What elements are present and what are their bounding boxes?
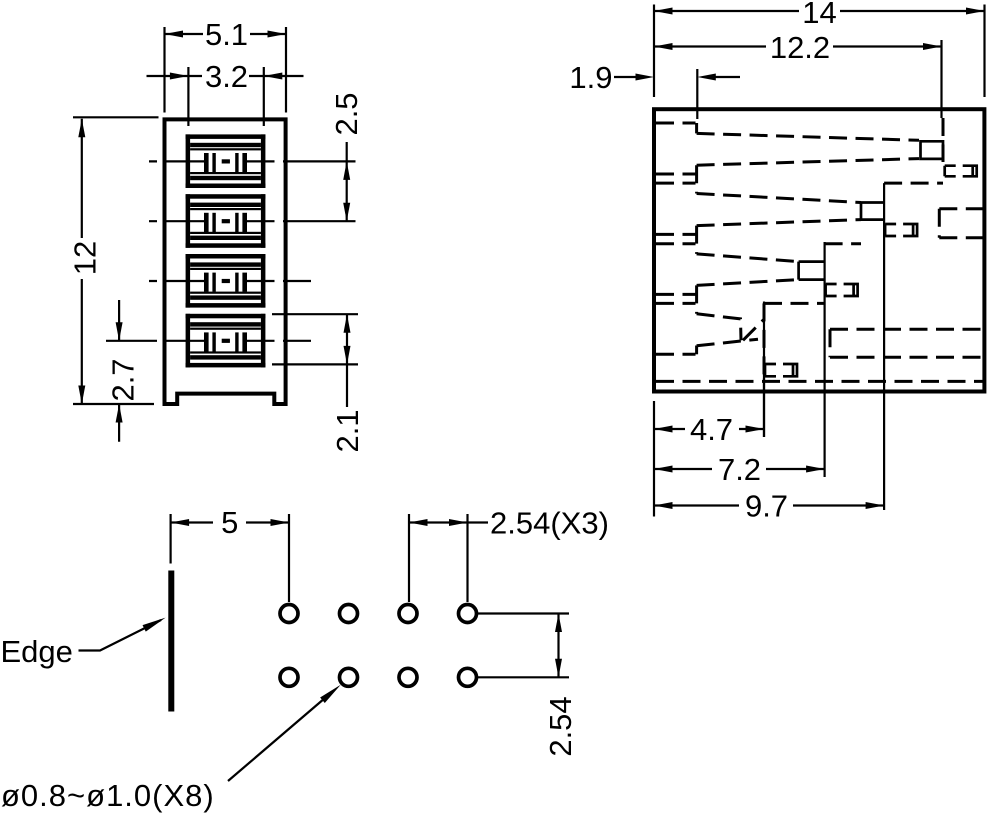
svg-text:Edge: Edge — [1, 634, 73, 669]
svg-text:12.2: 12.2 — [770, 30, 830, 65]
svg-text:14: 14 — [802, 0, 836, 30]
svg-text:5: 5 — [221, 505, 238, 540]
svg-text:4.7: 4.7 — [690, 412, 733, 447]
svg-text:2.7: 2.7 — [106, 358, 141, 401]
svg-text:2.54: 2.54 — [543, 696, 578, 756]
svg-text:2.1: 2.1 — [330, 409, 365, 452]
svg-text:2.5: 2.5 — [329, 92, 364, 135]
svg-text:ø0.8~ø1.0(X8): ø0.8~ø1.0(X8) — [1, 778, 215, 813]
svg-text:12: 12 — [67, 241, 102, 275]
svg-text:9.7: 9.7 — [745, 489, 788, 524]
svg-text:3.2: 3.2 — [205, 59, 248, 94]
svg-text:7.2: 7.2 — [718, 452, 761, 487]
svg-text:1.9: 1.9 — [569, 60, 612, 95]
svg-text:5.1: 5.1 — [205, 17, 248, 52]
svg-text:2.54(X3): 2.54(X3) — [490, 505, 609, 540]
